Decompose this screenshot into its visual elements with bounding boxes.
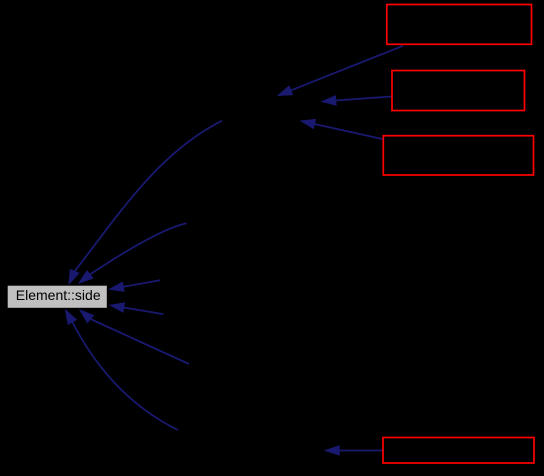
svg-text:Element::side: Element::side	[16, 287, 101, 303]
edge E4: middle node to Element::side (lower right-edge arrow)	[110, 303, 163, 314]
red caller box A (top right)	[387, 5, 532, 45]
edge E7: red box D to bottom middle node	[325, 446, 383, 455]
red caller box C	[383, 136, 533, 175]
node Element::side (gray box)	[7, 285, 108, 309]
edge E3: middle node to Element::side (upper right-edge arrow)	[110, 280, 160, 291]
red caller box B	[392, 71, 525, 111]
red caller box D (bottom right)	[383, 438, 534, 464]
edge E8: red box B to top middle node	[322, 96, 392, 105]
edge E10: red box C to top middle node	[301, 119, 383, 139]
edge E9: red box A to top middle node	[278, 46, 403, 96]
edge E1: top middle node to Element::side (long arc)	[69, 121, 222, 284]
edge E5: middle node to Element::side	[80, 310, 189, 364]
edge E2: middle node to Element::side	[79, 223, 187, 283]
edge E6: bottom middle node to Element::side (long arc)	[66, 310, 179, 430]
